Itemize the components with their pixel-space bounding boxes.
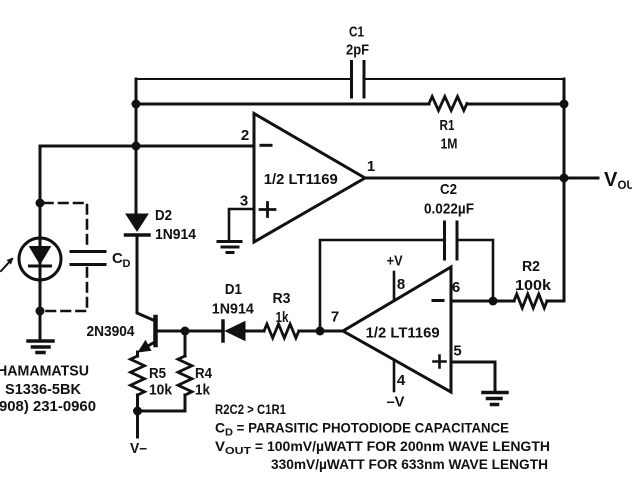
light arrow — [1, 258, 14, 272]
svg-text:1: 1 — [367, 158, 375, 175]
op-amp U1b — [343, 253, 462, 411]
dashed box (parasitic capacitance) — [44, 203, 87, 311]
capacitor C1 — [346, 24, 369, 98]
svg-text:+V: +V — [387, 253, 403, 270]
op-amp U1a — [240, 114, 375, 243]
wire vertical left junction column — [135, 79, 138, 214]
svg-text:2pF: 2pF — [346, 42, 369, 59]
svg-text:1/2 LT1169: 1/2 LT1169 — [366, 325, 440, 342]
transistor Q1 2N3904 — [87, 317, 156, 353]
svg-text:D1: D1 — [225, 281, 242, 298]
wire D1 to R3 — [245, 330, 264, 333]
junction node bottom — [133, 407, 142, 416]
svg-text:100k: 100k — [515, 277, 552, 294]
pin 4 stub — [393, 360, 396, 391]
resistor R3 — [264, 290, 299, 338]
junction node x564/output — [560, 174, 569, 183]
junction node pin6/C2 — [489, 297, 498, 306]
svg-text:CD = PARASITIC PHOTODIODE CAPA: CD = PARASITIC PHOTODIODE CAPACITANCE — [215, 420, 509, 439]
resistor R2 — [514, 258, 552, 308]
svg-text:1/2 LT1169: 1/2 LT1169 — [264, 171, 338, 188]
ground at pin3 — [218, 242, 241, 253]
wire emitter to R5 — [136, 352, 139, 356]
notes text — [215, 401, 550, 472]
svg-text:0.022µF: 0.022µF — [424, 201, 474, 218]
svg-text:1N914: 1N914 — [212, 301, 255, 318]
ground under photodiode — [28, 341, 53, 353]
junction node x564/R1 net — [560, 100, 569, 109]
wire R5/R4 bottom join — [138, 395, 186, 411]
svg-text:(908) 231-0960: (908) 231-0960 — [0, 398, 96, 415]
Vout label — [604, 169, 632, 192]
wire to V- — [136, 411, 139, 437]
wire pin6 net — [451, 300, 514, 303]
svg-text:S1336-5BK: S1336-5BK — [5, 381, 81, 398]
wire R1 net — [136, 103, 564, 106]
photodiode part number text — [0, 363, 96, 416]
diode D1 — [212, 281, 255, 341]
junction node photodiode bottom — [36, 307, 45, 316]
wire R3 to op-amp2 — [299, 330, 343, 333]
resistor R1 — [429, 97, 467, 153]
junction node photodiode top — [36, 199, 45, 208]
svg-text:R3: R3 — [273, 290, 291, 307]
svg-text:330mV/µWATT FOR 633nm WAVE LEN: 330mV/µWATT FOR 633nm WAVE LENGTH — [271, 456, 548, 472]
resistor R4 — [178, 356, 213, 399]
svg-text:1k: 1k — [276, 309, 290, 326]
wire pin2 input net — [40, 145, 254, 148]
svg-text:3: 3 — [240, 193, 248, 210]
svg-text:1M: 1M — [441, 136, 458, 153]
wire photodiode column — [39, 146, 42, 338]
svg-text:D2: D2 — [155, 207, 172, 224]
svg-text:V–: V– — [130, 440, 147, 457]
svg-text:R2: R2 — [522, 258, 540, 275]
svg-text:4: 4 — [397, 372, 406, 389]
svg-text:1N914: 1N914 — [155, 226, 197, 243]
wire top feedback (C1 net) — [136, 78, 564, 80]
junction node x136/pin2 net — [132, 142, 141, 151]
capacitor C2 — [424, 181, 474, 259]
svg-text:7: 7 — [331, 309, 339, 326]
wire R4 top — [184, 331, 187, 356]
wire pin5 to ground — [451, 362, 495, 392]
svg-text:C2: C2 — [440, 181, 457, 198]
svg-text:5: 5 — [453, 343, 461, 360]
svg-text:HAMAMATSU: HAMAMATSU — [0, 363, 89, 380]
svg-text:1k: 1k — [195, 382, 211, 399]
svg-text:–V: –V — [387, 394, 405, 411]
wire R2 to Vout column — [547, 300, 564, 303]
svg-text:R5: R5 — [149, 365, 166, 382]
junction node pin7 — [316, 327, 325, 336]
svg-text:VOUT = 100mV/µWATT FOR 200nm W: VOUT = 100mV/µWATT FOR 200nm WAVE LENGTH — [215, 438, 550, 457]
svg-text:V: V — [604, 169, 618, 191]
svg-text:C: C — [112, 250, 123, 267]
svg-text:R1: R1 — [440, 117, 455, 134]
junction node x136/R1 net — [132, 100, 141, 109]
svg-text:D: D — [123, 258, 131, 270]
wire output pin1 to Vout — [365, 177, 598, 180]
svg-text:8: 8 — [397, 276, 405, 293]
svg-text:R4: R4 — [195, 365, 213, 382]
svg-text:2: 2 — [241, 127, 249, 144]
wire base net to D1 — [156, 330, 224, 333]
wire D2 to transistor collector — [137, 235, 156, 321]
photodiode D (circle + diode) — [19, 238, 61, 280]
wire right vertical (Vout column) — [563, 79, 566, 301]
svg-text:R2C2 > C1R1: R2C2 > C1R1 — [215, 401, 286, 417]
pin 8 stub — [393, 272, 396, 300]
junction node base/R4 — [181, 327, 190, 336]
diode D2 — [126, 207, 197, 243]
svg-text:C1: C1 — [349, 24, 364, 41]
svg-text:10k: 10k — [149, 382, 173, 399]
capacitor CD — [71, 250, 131, 270]
resistor R5 — [131, 356, 173, 399]
ground at pin5 — [483, 393, 507, 405]
wire pin3 to ground — [229, 209, 254, 240]
svg-text:6: 6 — [452, 279, 460, 296]
wire C2 feedback loop — [320, 240, 493, 331]
svg-text:2N3904: 2N3904 — [87, 323, 136, 340]
svg-text:OUT: OUT — [618, 180, 632, 192]
